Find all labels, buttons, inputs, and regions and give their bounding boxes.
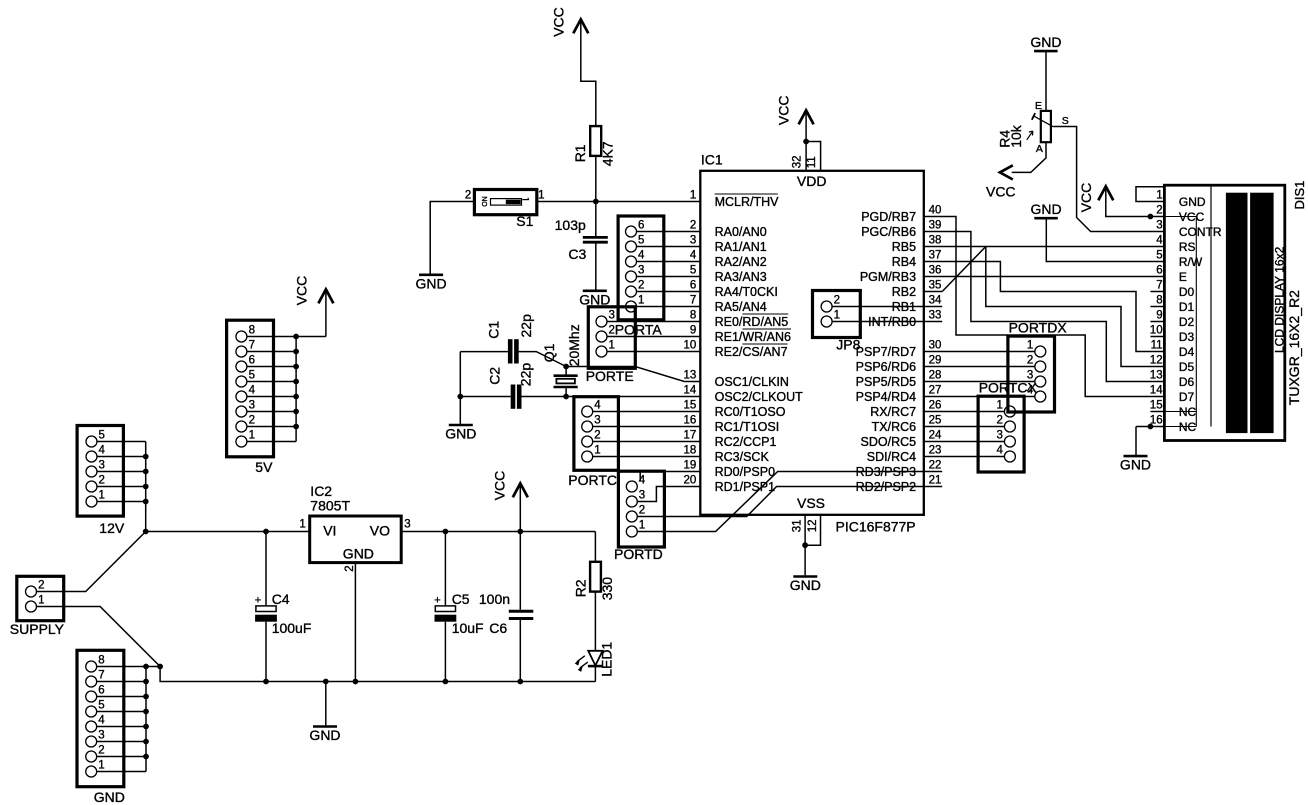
svg-text:100n: 100n — [479, 591, 510, 607]
wire C1/C2 common to ground — [459, 352, 461, 424]
junction VDD — [803, 139, 809, 145]
svg-text:RS: RS — [1179, 240, 1196, 254]
svg-text:VSS: VSS — [797, 495, 825, 511]
svg-text:8: 8 — [690, 310, 696, 322]
pin numbers 8..1 (GND conn) — [98, 655, 105, 772]
svg-text:2: 2 — [638, 280, 644, 292]
svg-text:1: 1 — [99, 490, 105, 502]
junction OSC1 node — [563, 364, 569, 370]
capacitor C5 (polarized) — [434, 595, 456, 622]
wire R1 to MCLR node — [595, 156, 597, 202]
pin numbers 3..1 (PORTE) — [609, 310, 615, 352]
svg-text:PSP5/RD5: PSP5/RD5 — [856, 375, 916, 389]
svg-text:RD1/PSP1: RD1/PSP1 — [715, 480, 775, 494]
svg-text:VCC: VCC — [492, 471, 508, 501]
svg-text:A: A — [1036, 143, 1043, 155]
svg-text:10: 10 — [1150, 325, 1163, 337]
wire IC1 pin 19 to PORTD pin 4 — [640, 472, 700, 482]
wires PORTA to IC1 pins 2-7 — [637, 232, 701, 307]
wire S1 pin1 to node — [537, 201, 596, 203]
power symbol VCC (5V rail) — [492, 471, 528, 501]
svg-text:VCC: VCC — [293, 276, 309, 306]
svg-text:7: 7 — [690, 295, 696, 307]
ground (below C3) — [583, 289, 607, 292]
ground (below IC1) — [793, 575, 817, 578]
connector PORTA — [618, 216, 664, 320]
svg-text:C3: C3 — [568, 246, 586, 262]
pins 2,1 of JP8 — [821, 301, 832, 327]
svg-text:2: 2 — [996, 415, 1002, 427]
pins 5..1 of 12V connector — [86, 436, 97, 507]
svg-text:VCC: VCC — [775, 96, 791, 126]
wire R4 A to VCC — [1012, 142, 1046, 172]
svg-text:7: 7 — [98, 670, 104, 682]
svg-text:GND: GND — [343, 546, 374, 562]
wire SUPPLY pin1 to ground rail — [37, 607, 161, 667]
svg-text:6: 6 — [98, 685, 104, 697]
svg-text:1: 1 — [996, 400, 1002, 412]
svg-text:14: 14 — [1150, 385, 1163, 397]
svg-text:D4: D4 — [1179, 345, 1195, 359]
svg-text:3: 3 — [638, 265, 644, 277]
svg-text:RB4: RB4 — [892, 255, 916, 269]
svg-text:4: 4 — [99, 445, 106, 457]
svg-text:7: 7 — [1156, 280, 1162, 292]
svg-text:15: 15 — [1150, 400, 1163, 412]
svg-text:PSP4/RD4: PSP4/RD4 — [856, 390, 916, 404]
svg-text:RC3/SCK: RC3/SCK — [715, 450, 770, 464]
svg-text:Q1: Q1 — [541, 343, 557, 362]
svg-text:3: 3 — [249, 400, 255, 412]
capacitor C4 (polarized) — [255, 595, 277, 622]
wires IC1 pins 26-23 to PORTCX — [924, 412, 1005, 457]
LCD screen area — [1226, 193, 1274, 433]
wire VCC to VDD — [805, 112, 807, 141]
wire S1 pin2 to ground — [430, 202, 474, 274]
junction GND net / supply — [157, 664, 163, 670]
power symbol VCC (R4 A, pointing left) — [986, 165, 1016, 199]
svg-text:8: 8 — [249, 325, 255, 337]
svg-text:S: S — [1062, 115, 1069, 127]
wire VCC arrow down to pin8 net — [325, 291, 327, 336]
svg-text:8: 8 — [1156, 295, 1162, 307]
svg-text:1: 1 — [690, 190, 696, 202]
wires IC1 pins 30-27 to PORTDX — [924, 352, 1035, 397]
svg-text:PGD/RB7: PGD/RB7 — [861, 210, 916, 224]
svg-text:PSP6/RD6: PSP6/RD6 — [856, 360, 916, 374]
svg-text:2: 2 — [99, 475, 105, 487]
junction C1/C2 ground — [457, 394, 463, 400]
connector PORTCX — [978, 396, 1024, 472]
ground (to LCD R/W) — [1031, 201, 1062, 218]
wires 5V pins 7..1 bundle — [247, 337, 296, 442]
connector PORTD — [618, 471, 664, 547]
svg-text:D5: D5 — [1179, 360, 1195, 374]
svg-text:GND: GND — [790, 577, 821, 593]
wire SUPPLY pin2 to VIN node — [37, 532, 146, 592]
pin numbers 4..1 (PORTC) — [594, 400, 601, 457]
svg-text:GND: GND — [445, 426, 476, 442]
pins 2,1 of SUPPLY — [26, 586, 37, 612]
pin numbers 2,1 (SUPPLY) — [38, 580, 44, 607]
svg-text:3: 3 — [1156, 220, 1162, 232]
svg-text:CONTR: CONTR — [1179, 225, 1222, 239]
LCD pin names — [1179, 195, 1222, 434]
svg-text:2: 2 — [465, 190, 471, 202]
svg-text:12: 12 — [807, 520, 819, 533]
pin numbers 4..1 (PORTD) — [639, 475, 646, 532]
wire through NC pin16 inside — [1164, 426, 1196, 428]
wire rail corner into R2 — [594, 532, 596, 562]
IC1 left pin numbers — [684, 190, 697, 487]
wire C4 top — [265, 532, 267, 606]
svg-text:12: 12 — [1150, 355, 1163, 367]
svg-text:2: 2 — [1156, 205, 1162, 217]
pin numbers 1..4 (PORTDX) — [1027, 340, 1034, 397]
wire to ground symbol — [325, 682, 327, 726]
pin numbers 8..1 (5V) — [249, 325, 256, 442]
svg-text:RD2/PSP2: RD2/PSP2 — [856, 480, 916, 494]
wire JP8 pin1 to INT/RB0 — [832, 321, 942, 323]
svg-text:3: 3 — [404, 519, 410, 531]
wire RD2/PSP2 pin 21 to PORTD pin 2 — [637, 487, 942, 517]
wire JP8 pin2 to RB1 — [832, 306, 942, 308]
svg-text:1: 1 — [1027, 340, 1033, 352]
resistor R2 — [590, 562, 601, 592]
display DIS1 body — [1164, 185, 1284, 440]
junction C5 bottom — [443, 679, 449, 685]
pin numbers 2,1 (JP8) — [834, 295, 840, 322]
wiper arrow mark — [1027, 131, 1033, 140]
svg-text:4: 4 — [98, 715, 105, 727]
svg-text:ON: ON — [482, 196, 489, 207]
svg-text:40: 40 — [929, 205, 942, 217]
wire through NC pin15 inside — [1164, 411, 1196, 413]
wire C2 right to OSC2 node — [522, 396, 567, 398]
svg-text:5V: 5V — [255, 459, 273, 475]
svg-text:12V: 12V — [99, 520, 125, 536]
wire C5 top — [444, 532, 446, 606]
wire C2 left — [460, 396, 510, 398]
svg-text:RX/RC7: RX/RC7 — [870, 405, 916, 419]
svg-text:GND: GND — [1031, 201, 1062, 217]
svg-text:VI: VI — [323, 523, 336, 539]
junctions on 12V bundle — [143, 454, 149, 505]
svg-text:1: 1 — [38, 595, 44, 607]
pins 4..1 of PORTC — [582, 406, 593, 462]
svg-text:6: 6 — [249, 355, 255, 367]
svg-text:25: 25 — [929, 415, 942, 427]
pin numbers 5..1 (12V) — [99, 430, 106, 502]
svg-text:36: 36 — [929, 265, 942, 277]
wire RD3/PSP3 pin 22 to PORTD pin 1 — [637, 472, 942, 532]
junction IC2 GND — [353, 679, 359, 685]
IC1 right pin names — [856, 210, 917, 494]
svg-text:RE1/WR/AN6: RE1/WR/AN6 — [715, 330, 791, 344]
pin numbers 6..1 (PORTA) — [638, 220, 645, 307]
svg-text:3: 3 — [996, 430, 1002, 442]
svg-text:7805T: 7805T — [310, 498, 350, 514]
svg-text:RA1/AN1: RA1/AN1 — [715, 240, 767, 254]
capacitor C3 — [583, 237, 608, 242]
overbar WR/AN6 — [742, 328, 791, 330]
svg-text:16: 16 — [1150, 415, 1163, 427]
svg-text:3: 3 — [609, 310, 615, 322]
junction LCD VCC — [1148, 214, 1154, 220]
svg-text:GND: GND — [309, 727, 340, 743]
svg-text:D6: D6 — [1179, 375, 1195, 389]
power symbol VCC (above 5V) — [293, 276, 333, 306]
svg-text:103p: 103p — [555, 217, 586, 233]
wire C1 right to OSC1 node — [519, 352, 566, 367]
power symbol VCC (top, feeds R1) — [550, 7, 588, 37]
wire IC2 VO rail to R2 — [401, 531, 595, 533]
svg-text:22: 22 — [929, 460, 942, 472]
wire LCD pin1 hook — [1136, 187, 1164, 202]
connector PORTC — [574, 397, 619, 471]
svg-text:2: 2 — [344, 565, 356, 571]
svg-text:330: 330 — [599, 577, 615, 601]
capacitor C6 — [509, 611, 534, 618]
junction LCD pin16 — [1148, 424, 1154, 430]
svg-text:22p: 22p — [518, 314, 534, 338]
pins 8..1 of GND connector — [86, 661, 97, 777]
wire 5V pin8 to VCC — [247, 336, 326, 338]
wire down to bottom ground rail — [160, 667, 595, 682]
wire C6 top — [519, 532, 521, 610]
power symbol VCC (LCD) — [1078, 183, 1114, 213]
pins 3..1 of PORTE — [596, 316, 607, 357]
svg-text:3: 3 — [690, 235, 696, 247]
svg-text:PGC/RB6: PGC/RB6 — [861, 225, 916, 239]
wire OSC2 node to IC1 pin 14 — [566, 396, 700, 398]
wire RB4 pin37 to LCD D4 — [924, 262, 1165, 352]
svg-text:17: 17 — [684, 430, 697, 442]
svg-text:RC0/T1OSO: RC0/T1OSO — [715, 405, 786, 419]
svg-text:1: 1 — [299, 519, 305, 531]
connector GND (8-pin header) — [77, 650, 124, 786]
capacitor C1 — [508, 339, 519, 363]
svg-text:D1: D1 — [1179, 300, 1195, 314]
wire ground to R4 E — [1045, 52, 1047, 111]
power symbol VCC (above IC1) — [775, 96, 813, 126]
wires GND connector bundle — [97, 667, 160, 772]
svg-text:1: 1 — [594, 445, 600, 457]
svg-text:26: 26 — [929, 400, 942, 412]
svg-text:D7: D7 — [1179, 390, 1195, 404]
svg-text:5: 5 — [99, 430, 105, 442]
svg-text:GND: GND — [1030, 34, 1061, 50]
svg-text:RB5: RB5 — [892, 240, 916, 254]
connector 12V — [77, 426, 123, 517]
wire VCC to R1 — [581, 21, 596, 126]
svg-text:11: 11 — [806, 156, 818, 168]
svg-text:PORTDX: PORTDX — [1009, 319, 1068, 335]
ground (above R4) — [1030, 34, 1061, 51]
svg-text:VCC: VCC — [986, 184, 1016, 200]
wire VSS to ground — [804, 545, 806, 575]
junction C4 bottom — [263, 679, 269, 685]
svg-text:5: 5 — [1156, 250, 1162, 262]
junctions on 5V bundle — [293, 334, 299, 430]
junction C6 bottom — [517, 679, 523, 685]
wire VIN rail to IC2 VI — [146, 531, 310, 533]
svg-text:PORTCX: PORTCX — [979, 380, 1038, 396]
svg-text:4: 4 — [996, 445, 1003, 457]
svg-text:PORTA: PORTA — [615, 322, 663, 338]
svg-text:2: 2 — [609, 325, 615, 337]
junction node VIN — [143, 529, 149, 535]
svg-text:39: 39 — [929, 220, 942, 232]
svg-text:RA4/T0CKI: RA4/T0CKI — [715, 285, 778, 299]
svg-text:27: 27 — [929, 385, 942, 397]
svg-text:1: 1 — [639, 520, 645, 532]
svg-text:2: 2 — [834, 295, 840, 307]
svg-text:GND: GND — [1179, 195, 1206, 209]
pin numbers 1..4 (PORTCX) — [996, 400, 1003, 457]
svg-text:4: 4 — [690, 250, 697, 262]
connector 5V (SV header) — [227, 320, 274, 457]
wire RB3 pin36 to LCD E — [924, 276, 1165, 278]
IC1 right pin numbers — [929, 205, 942, 487]
LED LED1 — [575, 651, 603, 672]
svg-text:2: 2 — [639, 505, 645, 517]
svg-text:R/W: R/W — [1179, 255, 1203, 269]
svg-text:LED1: LED1 — [598, 642, 614, 677]
svg-text:11: 11 — [1151, 340, 1163, 352]
svg-text:RA5/AN4: RA5/AN4 — [715, 300, 767, 314]
svg-text:RA3/AN3: RA3/AN3 — [715, 270, 767, 284]
svg-text:4K7: 4K7 — [599, 141, 615, 166]
wire C6 bottom — [519, 620, 521, 682]
svg-text:VCC: VCC — [1078, 183, 1094, 213]
wire node to C3 — [595, 202, 597, 237]
wire C1 left — [460, 351, 508, 353]
resistor R1 — [590, 126, 601, 156]
junction VSS — [802, 542, 808, 548]
junction node MCLR — [593, 199, 599, 205]
svg-text:RD3/PSP3: RD3/PSP3 — [856, 465, 916, 479]
switch S1 — [474, 190, 536, 215]
svg-text:1: 1 — [538, 190, 544, 202]
wire node to IC1 pin 1 MCLR — [596, 201, 701, 203]
svg-text:6: 6 — [1156, 265, 1162, 277]
svg-text:PORTC: PORTC — [568, 472, 617, 488]
svg-text:3: 3 — [98, 730, 104, 742]
svg-text:DIS1: DIS1 — [1292, 181, 1307, 210]
svg-text:4: 4 — [638, 250, 645, 262]
svg-text:31: 31 — [791, 520, 803, 533]
voltage regulator IC2 7805T — [310, 516, 402, 563]
ground (below C1 C2) — [449, 424, 473, 427]
svg-text:15: 15 — [684, 400, 697, 412]
potentiometer R4 — [1032, 111, 1054, 142]
svg-text:R1: R1 — [572, 144, 588, 162]
svg-text:C1: C1 — [485, 321, 501, 339]
svg-text:1: 1 — [249, 430, 255, 442]
svg-text:4: 4 — [249, 385, 256, 397]
wire ground to LCD R/W — [1046, 219, 1164, 261]
svg-text:8: 8 — [98, 655, 104, 667]
svg-text:10uF: 10uF — [452, 620, 484, 636]
wire RB2 pin35 to LCD RS — [924, 247, 1165, 292]
svg-text:C4: C4 — [272, 591, 290, 607]
wire crystal top — [565, 367, 567, 376]
svg-text:20Mhz: 20Mhz — [566, 324, 582, 366]
svg-text:VO: VO — [370, 523, 390, 539]
svg-text:4: 4 — [1156, 235, 1163, 247]
svg-text:5: 5 — [249, 370, 255, 382]
svg-text:C5: C5 — [452, 591, 470, 607]
svg-text:+: + — [255, 595, 261, 607]
overbar MCLR/THV — [715, 193, 778, 195]
svg-text:RC1/T1OSI: RC1/T1OSI — [715, 420, 780, 434]
LCD inner divider — [1210, 186, 1212, 426]
svg-text:1: 1 — [834, 310, 840, 322]
junction C6 top — [517, 529, 523, 535]
wires 12V bundle — [97, 442, 146, 532]
wire crystal bottom — [565, 387, 567, 397]
svg-text:5: 5 — [638, 235, 644, 247]
wire IC1 pin 20 to PORTD pin 3 — [637, 487, 700, 502]
svg-text:16: 16 — [684, 415, 697, 427]
svg-text:GND: GND — [416, 275, 447, 291]
svg-text:C6: C6 — [489, 620, 507, 636]
svg-text:20: 20 — [684, 475, 697, 487]
svg-text:34: 34 — [929, 295, 942, 307]
pins 6..1 of PORTA — [626, 226, 637, 312]
svg-text:RB2: RB2 — [892, 285, 916, 299]
wire IC2 GND pin to rail — [354, 563, 356, 682]
svg-text:2: 2 — [594, 430, 600, 442]
svg-text:29: 29 — [929, 355, 942, 367]
ground (below LCD) — [1124, 455, 1148, 458]
svg-text:35: 35 — [929, 280, 942, 292]
svg-text:23: 23 — [929, 445, 942, 457]
junction C5 top — [443, 529, 449, 535]
pins 8..1 of 5V connector — [236, 331, 247, 447]
svg-text:RE2/CS/AN7: RE2/CS/AN7 — [715, 345, 788, 359]
wire C5 bottom — [444, 622, 446, 682]
svg-text:RC2/CCP1: RC2/CCP1 — [715, 435, 777, 449]
wire RB5 pin38 to LCD D5 — [924, 247, 1165, 367]
svg-text:JP8: JP8 — [836, 336, 860, 352]
wire VCC to LCD pin 2 — [1106, 188, 1165, 216]
svg-text:D2: D2 — [1179, 315, 1195, 329]
wire VCC arrow to rail — [519, 485, 521, 531]
svg-text:IC1: IC1 — [701, 152, 723, 168]
svg-text:VDD: VDD — [797, 173, 827, 189]
svg-text:GND: GND — [94, 789, 125, 805]
svg-text:2: 2 — [690, 220, 696, 232]
ground (below S1) — [419, 273, 443, 276]
svg-text:RD0/PSP0: RD0/PSP0 — [715, 465, 775, 479]
svg-text:37: 37 — [929, 250, 942, 262]
svg-text:3: 3 — [594, 415, 600, 427]
svg-text:RA2/AN2: RA2/AN2 — [715, 255, 767, 269]
svg-text:PIC16F877P: PIC16F877P — [836, 519, 916, 535]
svg-text:30: 30 — [929, 340, 942, 352]
junction ground-rail / gnd symbol — [323, 679, 329, 685]
svg-text:PSP7/RD7: PSP7/RD7 — [856, 345, 916, 359]
svg-text:38: 38 — [929, 235, 942, 247]
svg-text:VCC: VCC — [550, 7, 566, 37]
junction C4 top — [263, 529, 269, 535]
svg-text:13: 13 — [684, 370, 697, 382]
svg-text:1: 1 — [98, 760, 104, 772]
connector PORTE — [588, 307, 635, 369]
wire R2 to LED1 — [594, 592, 596, 651]
